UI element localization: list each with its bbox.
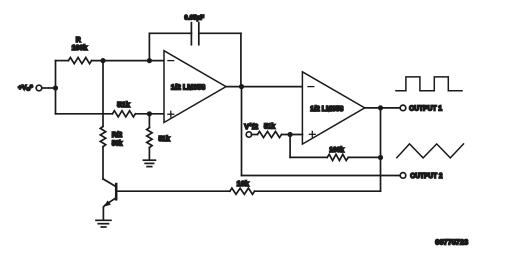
svg-text:0.05μF: 0.05μF	[184, 15, 204, 22]
terminal V+/2	[246, 132, 251, 137]
wire terminal to rail	[42, 87, 56, 89]
svg-text:100k: 100k	[329, 145, 344, 154]
wire R/2 rail from inverting node	[102, 61, 104, 127]
U2 plus sign	[309, 131, 315, 137]
wire U2 output to OUTPUT 1	[365, 107, 401, 109]
transistor Q1 emitter arrow	[104, 200, 111, 206]
svg-text:00778723: 00778723	[435, 238, 468, 247]
op-amp U1 1/2 LM358	[164, 51, 226, 123]
wire + node down	[289, 135, 291, 158]
wire +VC vertical rail	[55, 61, 57, 114]
wire to U2 non-inverting input	[282, 134, 303, 136]
wire bottom feedback row	[255, 190, 381, 192]
wire capacitor left horizontal	[149, 32, 191, 34]
svg-text:51k: 51k	[264, 121, 275, 130]
wire down to 51k vertical	[148, 114, 150, 128]
node U2 output	[378, 105, 383, 110]
terminal OUTPUT 2	[400, 173, 406, 179]
U2 minus sign	[308, 86, 314, 88]
wire 10k to transistor base	[116, 190, 230, 192]
svg-text:100k: 100k	[72, 43, 88, 52]
resistor R 100k	[68, 58, 91, 64]
node R output	[100, 58, 105, 63]
node U2 + input	[288, 132, 293, 137]
wire U1 output to U2 inverting input	[226, 86, 302, 88]
U1 plus sign	[168, 111, 174, 117]
svg-text:1/2 LM358: 1/2 LM358	[171, 82, 205, 91]
transistor Q1 base bar	[115, 184, 118, 199]
node at +VC rail	[53, 85, 58, 90]
wire capacitor left vertical	[148, 33, 150, 60]
transistor Q1 collector lead	[103, 179, 115, 186]
U1 minus sign	[168, 60, 174, 62]
svg-text:OUTPUT 1: OUTPUT 1	[409, 105, 442, 112]
wire to 100k	[290, 156, 327, 158]
svg-text:+VC*: +VC*	[18, 85, 33, 93]
wire OUTPUT 2 row	[242, 175, 401, 177]
node U1 output	[239, 84, 244, 89]
wire bottom row left	[56, 113, 113, 115]
op-amp U2 1/2 LM358	[302, 72, 364, 144]
wire 51k to op-amp non-inverting input	[135, 113, 164, 115]
wire R to op-amp inverting input	[92, 60, 164, 62]
resistor 51k horizontal	[112, 111, 135, 117]
ground below 51k	[143, 160, 155, 166]
svg-text:V+/2: V+/2	[244, 122, 258, 131]
wire capacitor right vertical to op-amp 1 output	[240, 33, 242, 86]
triangle wave symbol	[397, 144, 464, 158]
square wave symbol	[396, 77, 462, 91]
resistor 10k	[230, 188, 255, 194]
ground below transistor	[96, 220, 111, 227]
wire 51k to ground	[148, 148, 150, 160]
wire U1 output down to OUTPUT 2 row	[241, 87, 243, 176]
wire R/2 to transistor collector	[102, 147, 104, 179]
svg-text:10k: 10k	[237, 179, 249, 188]
svg-text:51k: 51k	[159, 134, 170, 143]
wire U2 output rail down	[380, 108, 382, 191]
resistor 51k vertical	[147, 128, 152, 148]
svg-text:50k: 50k	[112, 138, 123, 147]
wire top row left	[56, 60, 69, 62]
node + input	[147, 111, 152, 116]
terminal +VC input	[36, 85, 42, 91]
terminal OUTPUT 1	[400, 105, 406, 111]
svg-text:51k: 51k	[117, 100, 130, 109]
transistor Q1 emitter lead	[103, 198, 116, 220]
node capacitor tap	[147, 58, 152, 63]
node 100k / output rail	[378, 155, 383, 160]
wire 100k to output rail	[348, 156, 380, 158]
capacitor C 0.05uF plates	[190, 23, 192, 45]
resistor 100k feedback	[327, 154, 348, 160]
wire capacitor right horizontal	[199, 32, 241, 34]
svg-text:OUTPUT 2: OUTPUT 2	[410, 173, 442, 180]
resistor 51k (V+/2)	[258, 131, 282, 137]
wire V+/2 to resistor	[252, 134, 258, 136]
svg-text:1/2 LM358: 1/2 LM358	[310, 106, 343, 113]
resistor R/2 50k	[100, 126, 105, 146]
